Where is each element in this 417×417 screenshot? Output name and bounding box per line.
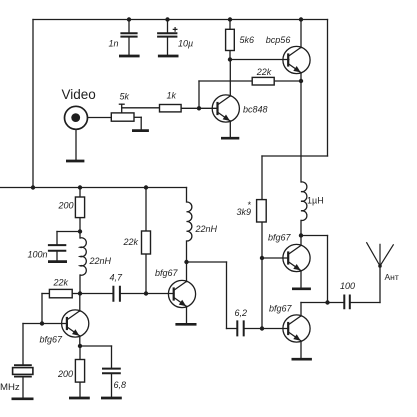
ground resistor 200 lower (69, 397, 90, 400)
potentiometer 5k body (111, 113, 134, 121)
wire 3k9 top lead (261, 156, 263, 200)
wire right drop x=327.5 (327, 236, 329, 303)
node lower bfg67 base (260, 326, 264, 330)
wire base node up (198, 81, 200, 108)
wire bc848 collector (229, 60, 231, 97)
ground 10u (158, 55, 179, 58)
resistor 22k middle (142, 231, 151, 254)
wire left 22nH bottom lead (79, 275, 81, 294)
wire y=156 to 3k9 branch (262, 155, 328, 157)
capacitor 4,7 plates (113, 286, 120, 302)
wire 200 top lead (79, 188, 81, 198)
wire supply rail top (33, 19, 328, 21)
node 1uH-collector (299, 233, 303, 237)
node upper bfg67 base (260, 256, 264, 260)
wire node to 100n (57, 231, 80, 233)
capacitor 6,2 plates (237, 320, 243, 336)
ground pot 5k (132, 129, 149, 132)
svg-text:200: 200 (58, 200, 74, 210)
svg-text:bfg67: bfg67 (40, 335, 64, 345)
svg-text:MHz: MHz (0, 382, 20, 393)
node rail-1n (127, 17, 131, 21)
transistor bfg67 lower right (283, 315, 310, 342)
node bc848 base (197, 106, 201, 110)
inductor 22nH left (80, 238, 86, 275)
wire 22k bl left lead (42, 293, 49, 295)
wire cap 6,2 right plate to node (244, 328, 262, 330)
wire left vertical from rail (32, 20, 34, 188)
node left bfg67 base (40, 321, 44, 325)
ground capacitor 6,8 (101, 397, 122, 400)
capacitor 100 plates (344, 295, 350, 310)
wire 200 bottom lead (79, 218, 81, 232)
svg-text:1k: 1k (167, 91, 177, 101)
wire 22k mid bottom lead (145, 254, 147, 294)
svg-text:5k6: 5k6 (240, 35, 255, 45)
svg-text:4,7: 4,7 (110, 272, 124, 282)
node left oscillator collector (78, 291, 82, 295)
node bcp56 emitter (299, 79, 303, 83)
node bus-22k (144, 185, 148, 189)
wire 200 bottom res bottom lead (79, 382, 81, 397)
resistor 3k9 (257, 200, 267, 222)
svg-text:100: 100 (340, 281, 355, 291)
wire node to cap 4,7 (80, 293, 113, 295)
wire base of left bfg67 (42, 323, 67, 325)
transistor bc848 (212, 95, 239, 122)
wire bc848 emitter to ground (229, 121, 231, 137)
antenna (366, 242, 393, 268)
wire cap 6,8 top lead (111, 346, 113, 368)
ground upper right bfg67 emitter (292, 287, 311, 290)
wire pot wiper tap (121, 104, 123, 113)
resistor 22k bottom-left (49, 289, 72, 297)
ground 100n (48, 260, 67, 263)
wire cap 6,8 bottom lead (111, 374, 113, 396)
wire pot right to ground (140, 117, 142, 129)
wire bcp56 emitter down to 1uH (300, 73, 302, 182)
resistor 1k (160, 105, 182, 112)
node rail-10u (165, 17, 169, 21)
node rail-5k6 (228, 17, 232, 21)
wire upper bfg67 emitter (300, 271, 302, 288)
wire left bfg67 collector (79, 294, 81, 312)
inductor 22nH right (187, 202, 192, 241)
capacitor 100n plates (48, 245, 66, 251)
crystal MHz (13, 365, 33, 376)
capacitor 1n plates (120, 33, 137, 36)
wire y=81 to 22k feedback left (199, 80, 252, 82)
wire 22k mid top lead (145, 188, 147, 232)
node 5k6-bc848 collector (228, 57, 232, 61)
node rail-bcp56 (299, 17, 303, 21)
wire output y=302.5 collector to cap 100 (301, 302, 344, 304)
wire cap 100 to antenna (350, 302, 380, 304)
wire left 22nH top lead (79, 232, 81, 239)
wire 5k6 top lead (229, 20, 231, 30)
wire 22k feedback right to emitter node (274, 80, 301, 82)
svg-text:Ант: Ант (385, 272, 399, 282)
svg-text:bc848: bc848 (243, 104, 268, 114)
wire 10u bottom lead (167, 37, 169, 54)
node middle bfg67 base (144, 291, 148, 295)
wire base bias vertical x=262 (261, 258, 263, 329)
transistor bfg67 middle (168, 280, 195, 307)
svg-text:6,8: 6,8 (114, 380, 127, 390)
wire right 22nH top lead (186, 188, 188, 203)
capacitor 10u plates (157, 33, 177, 36)
node output junction (325, 300, 329, 304)
wire crystal top lead (22, 324, 24, 365)
wire emitter node to cap 6,8 (80, 345, 112, 347)
wire crystal bottom lead (22, 378, 24, 397)
resistor 200 lower (75, 360, 84, 383)
wire right vertical from rail (327, 20, 329, 157)
svg-text:200: 200 (57, 369, 73, 379)
wire vertical x=226.5 to cap 6,2 (226, 262, 228, 329)
wire pot right lead (134, 116, 141, 118)
wire antenna lead vertical (379, 266, 381, 303)
wire 1uH bottom to bfg67 collector (300, 220, 302, 245)
svg-text:*: * (248, 200, 252, 210)
svg-text:5k: 5k (120, 92, 130, 102)
transistor bcp56 (283, 46, 310, 73)
svg-text:22nH: 22nH (89, 256, 112, 266)
wire lower bfg67 emitter (300, 341, 302, 358)
wire 200 bottom res top lead (79, 346, 81, 360)
wire 100n top lead (56, 232, 58, 245)
svg-text:100n: 100n (28, 249, 48, 259)
svg-text:1µH: 1µH (307, 196, 324, 206)
ground video jack (66, 160, 84, 163)
wire 10u top lead (167, 20, 169, 33)
wire video jack ground lead (75, 130, 77, 160)
wire middle bfg67 emitter to ground (186, 306, 188, 323)
svg-text:bcp56: bcp56 (266, 35, 291, 45)
node 200-100n-22nH (78, 229, 82, 233)
svg-text:22k: 22k (53, 277, 69, 287)
resistor 200 upper (75, 197, 84, 218)
wire bcp56 collector to rail (300, 20, 302, 48)
transistor bfg67 left (62, 310, 89, 337)
svg-text:22nH: 22nH (195, 224, 218, 234)
svg-text:bfg67: bfg67 (269, 303, 293, 313)
wire to cap 6,2 left plate (227, 328, 238, 330)
wire from 1uH node to right drop (301, 235, 328, 237)
wire 1n bottom lead (128, 37, 130, 54)
ground bc848 emitter (221, 137, 239, 140)
node left rail joins bus (31, 185, 35, 189)
wire 1n top lead (128, 20, 130, 33)
wire base of middle bfg67 (146, 293, 174, 295)
svg-text:22k: 22k (256, 67, 272, 77)
wire lower bfg67 collector (300, 303, 302, 317)
wire 22k bl right lead (72, 293, 80, 295)
node middle bfg67 collector (184, 260, 188, 264)
wire pot wiper tick (119, 103, 124, 105)
svg-text:bfg67: bfg67 (155, 268, 179, 278)
node bus-200 (78, 185, 82, 189)
wire y=262 oscillator output (187, 261, 227, 263)
inductor 1uH (301, 182, 307, 221)
capacitor 6,8 plates (102, 369, 121, 374)
wire 1k to bc848 base (181, 107, 218, 109)
wire base of upper bfg67 (262, 257, 288, 259)
wire 3k9 bottom lead to node (261, 222, 263, 258)
wire left bfg67 emitter (79, 336, 81, 346)
wire middle bfg67 collector (186, 262, 188, 282)
capacitor 10u polarity plus (173, 27, 178, 32)
wire feedback vertical x=42 (41, 294, 43, 324)
connector video jack (65, 106, 88, 129)
wire horizontal bus y=187.5 (0, 187, 187, 189)
svg-text:bfg67: bfg67 (268, 232, 292, 242)
wire cap 4,7 to 22k-mid node (120, 293, 146, 295)
resistor 5k6 (226, 29, 235, 50)
resistor 22k feedback (252, 77, 274, 85)
wire 5k6 bottom lead (229, 51, 231, 60)
wire 5k6 node to bcp56 base (230, 59, 289, 61)
node left bfg67 emitter (78, 344, 82, 348)
ground middle bfg67 emitter (175, 323, 196, 326)
wire right 22nH bottom lead (186, 241, 188, 262)
ground lower right bfg67 emitter (292, 358, 312, 361)
transistor bfg67 upper right (283, 244, 310, 271)
svg-text:6,2: 6,2 (235, 308, 248, 318)
svg-text:Video: Video (62, 87, 96, 102)
wire 100n bottom lead (56, 251, 58, 260)
wire base of lower bfg67 (262, 328, 288, 330)
wire wiper to 1k (122, 107, 160, 109)
ground 1n (119, 55, 140, 58)
svg-text:1n: 1n (109, 38, 119, 48)
wire node to crystal (23, 323, 42, 325)
wire video jack to pot (88, 117, 111, 119)
svg-text:10µ: 10µ (178, 38, 193, 48)
ground crystal (12, 397, 34, 400)
svg-text:22k: 22k (123, 237, 139, 247)
